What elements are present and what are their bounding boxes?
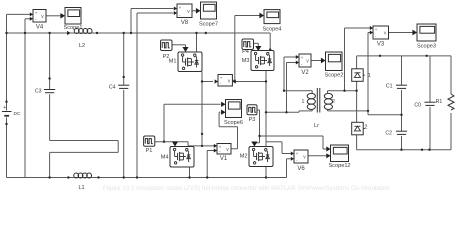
svg-text:+: + bbox=[296, 151, 299, 156]
svg-text:V3: V3 bbox=[377, 42, 385, 48]
svg-text:C3: C3 bbox=[35, 89, 42, 95]
svg-text:P3: P3 bbox=[249, 117, 256, 123]
svg-text:+: + bbox=[179, 5, 182, 10]
svg-text:Scope3: Scope3 bbox=[417, 44, 436, 50]
svg-text:M3: M3 bbox=[242, 58, 250, 64]
svg-text:Scope7: Scope7 bbox=[199, 21, 218, 27]
svg-text:V4: V4 bbox=[36, 25, 44, 31]
svg-text:C4: C4 bbox=[109, 84, 116, 90]
svg-text:P4: P4 bbox=[242, 49, 249, 55]
svg-text:+: + bbox=[375, 27, 378, 32]
svg-text:C2: C2 bbox=[385, 131, 392, 137]
svg-text:V6: V6 bbox=[297, 166, 305, 172]
svg-text:1: 1 bbox=[302, 99, 305, 105]
svg-text:+: + bbox=[35, 10, 38, 15]
svg-text:M4: M4 bbox=[161, 155, 169, 161]
svg-text:+: + bbox=[301, 55, 304, 60]
svg-text:V2: V2 bbox=[301, 70, 309, 76]
svg-text:Scope4: Scope4 bbox=[263, 26, 282, 32]
svg-text:L1: L1 bbox=[78, 185, 84, 191]
svg-text:2: 2 bbox=[365, 125, 368, 131]
svg-text:P1: P1 bbox=[146, 148, 153, 154]
svg-text:DC: DC bbox=[14, 111, 21, 117]
svg-text:Scope2: Scope2 bbox=[325, 72, 344, 78]
svg-text:V8: V8 bbox=[181, 20, 189, 26]
svg-text:Scope6: Scope6 bbox=[224, 120, 243, 126]
svg-text:Lr: Lr bbox=[314, 123, 319, 129]
svg-text:C0: C0 bbox=[414, 102, 421, 108]
svg-text:R1: R1 bbox=[436, 99, 443, 105]
svg-text:+: + bbox=[220, 75, 223, 80]
svg-text:Scope12: Scope12 bbox=[328, 163, 350, 169]
svg-text:V1: V1 bbox=[220, 156, 228, 162]
svg-text:C1: C1 bbox=[386, 84, 393, 90]
svg-text:1: 1 bbox=[368, 73, 371, 79]
svg-text:Figure 10.2 simulation mo: Figure 10.2 simulation model (ZVS) full-… bbox=[103, 185, 390, 191]
svg-text:Scope1: Scope1 bbox=[64, 25, 83, 31]
svg-text:+: + bbox=[3, 105, 6, 111]
svg-text:L2: L2 bbox=[79, 43, 85, 49]
svg-text:2: 2 bbox=[332, 99, 335, 105]
svg-text:M1: M1 bbox=[169, 59, 177, 65]
svg-text:M2: M2 bbox=[240, 154, 248, 160]
